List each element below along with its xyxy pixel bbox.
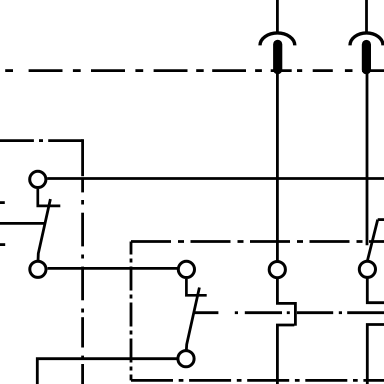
contact S1 blade: [38, 199, 50, 261]
contact S2 blade: [186, 288, 199, 351]
enclosure boundary E1 top edge (dash-dot): [0, 139, 83, 142]
wire W2 (S1 to S2): [48, 267, 179, 270]
contact S2 lower terminal node: [178, 351, 194, 367]
wire (lower lead of connector X1): [276, 73, 279, 261]
contact S2 fixed lead with bar: [186, 279, 206, 295]
wire stub at left edge (upper): [0, 201, 5, 204]
node (terminal circle on line 2): [359, 261, 375, 277]
connector X1 pin: [273, 40, 282, 74]
wire (upper lead of connector X2): [365, 0, 368, 34]
mechanical linkage (dash-dot) S2 blade to bridges: [194, 311, 384, 314]
contact S1 lower terminal node: [30, 261, 46, 277]
bridge contact K2 lower jog: [367, 325, 384, 384]
contact S3 blade: [367, 220, 377, 261]
bridge contact K1 lower jog: [277, 325, 294, 384]
enclosure boundary E2 left edge (dash-dot): [130, 242, 133, 381]
bridge contact K1 upper jog: [277, 278, 294, 304]
wire (lower lead of connector X2 / fixed lead of contact S3): [366, 74, 369, 246]
node (terminal circle on line 1): [269, 262, 285, 278]
boundary line (upper panel edge, dash-dot): [5, 69, 384, 72]
connector X2 socket arc: [350, 33, 383, 46]
wire W1 (top bus): [47, 177, 384, 180]
contact S2 upper terminal node: [178, 261, 194, 277]
contact S1 fixed lead with bar: [38, 189, 61, 206]
wire stub at left edge (lower): [0, 243, 5, 246]
enclosure boundary E2 top edge (dash-dot): [131, 240, 384, 243]
wire W3 (bottom wire with drop at left): [37, 359, 178, 384]
bridge contact K2 upper jog: [367, 277, 384, 302]
wire to S1 blade: [0, 222, 46, 225]
wire (upper lead of connector X1): [276, 0, 279, 34]
connector X2 pin: [362, 40, 371, 74]
enclosure boundary E2 bottom edge (dash-dot): [131, 379, 384, 382]
enclosure boundary E1 left edge (dash-dot): [81, 139, 84, 384]
connector X1 socket arc: [260, 33, 295, 45]
wire from right edge to contact S3: [378, 218, 384, 221]
bridge contact K1 bar: [294, 302, 297, 326]
contact S1 upper terminal node: [30, 171, 46, 187]
